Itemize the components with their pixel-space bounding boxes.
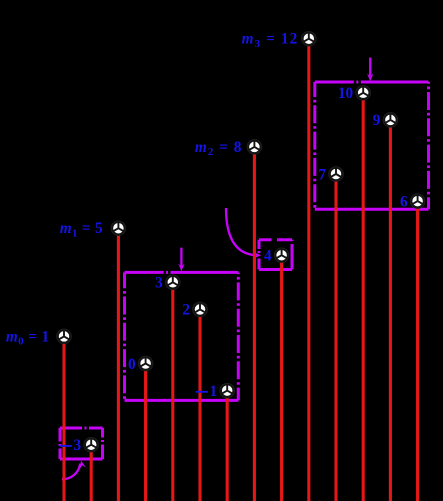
svg-text:2: 2 bbox=[182, 302, 190, 319]
svg-text:7: 7 bbox=[318, 166, 326, 183]
svg-text:10: 10 bbox=[338, 85, 354, 102]
svg-text:9: 9 bbox=[373, 112, 381, 129]
svg-text:m0 = 1: m0 = 1 bbox=[6, 328, 49, 347]
svg-text:m3 = 12: m3 = 12 bbox=[242, 31, 298, 50]
svg-text:m2 = 8: m2 = 8 bbox=[195, 139, 242, 158]
svg-text:1: 1 bbox=[210, 383, 218, 400]
svg-text:0: 0 bbox=[128, 356, 136, 373]
svg-text:6: 6 bbox=[400, 193, 408, 210]
svg-text:m1 = 5: m1 = 5 bbox=[60, 220, 103, 239]
svg-text:3: 3 bbox=[74, 437, 82, 454]
svg-text:4: 4 bbox=[264, 248, 272, 265]
svg-text:3: 3 bbox=[155, 275, 163, 292]
